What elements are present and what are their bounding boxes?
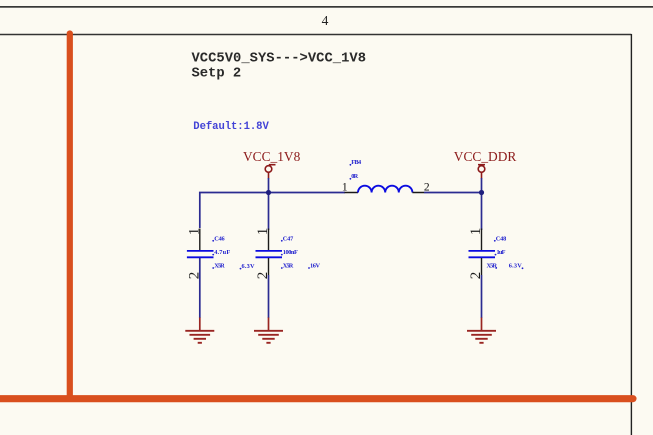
svg-text:0R: 0R <box>351 173 358 180</box>
svg-text:FB4: FB4 <box>351 159 362 166</box>
svg-text:16V: 16V <box>310 262 320 269</box>
svg-text:VCC_DDR: VCC_DDR <box>454 149 517 164</box>
C47 pin 2 black segment <box>268 258 270 275</box>
ferrite bead FB4 <box>342 159 430 194</box>
svg-text:1uF: 1uF <box>497 249 506 256</box>
power port VCC_1V8 circle <box>265 165 275 179</box>
wire: bus right segment <box>424 192 482 194</box>
orange vertical bus bar <box>67 30 73 398</box>
svg-text:4.7uF: 4.7uF <box>214 249 230 256</box>
FB4 pin 1 stub <box>345 192 359 194</box>
svg-text:C48: C48 <box>496 235 507 242</box>
wire: VCC_1V8 drop <box>268 178 270 230</box>
svg-text:6.3V: 6.3V <box>509 262 522 269</box>
C48 plates <box>469 250 496 252</box>
capacitor C46 <box>187 228 255 318</box>
C47 pin 1 black segment <box>268 229 270 251</box>
power port VCC_DDR circle <box>478 165 485 179</box>
svg-text:1: 1 <box>468 228 484 236</box>
ground under C47 <box>254 318 283 343</box>
junction node at VCC_DDR <box>479 190 484 195</box>
inner border top line <box>0 34 631 36</box>
svg-text:Setp 2: Setp 2 <box>192 67 242 82</box>
svg-text:4: 4 <box>322 13 329 28</box>
C48 pin 2 black segment <box>481 258 483 275</box>
svg-text:2: 2 <box>187 272 203 280</box>
C47 wire below <box>268 275 270 318</box>
ground under C46 <box>185 318 214 343</box>
junction node at VCC_1V8 <box>266 190 271 195</box>
svg-text:1: 1 <box>342 182 348 194</box>
C46 pin 1 black segment <box>199 229 201 251</box>
svg-text:C47: C47 <box>283 235 294 242</box>
capacitor C47 <box>255 228 320 318</box>
FB4 coil <box>358 186 412 193</box>
svg-text:C46: C46 <box>214 235 225 242</box>
svg-text:2: 2 <box>424 182 430 194</box>
svg-text:1: 1 <box>187 228 203 236</box>
C48 wire below <box>481 275 483 318</box>
svg-text:2: 2 <box>255 272 271 280</box>
ground under C48 <box>467 318 496 343</box>
svg-text:VCC_1V8: VCC_1V8 <box>243 149 301 164</box>
orange horizontal bus bar <box>0 395 637 402</box>
C46 wire below <box>199 258 201 318</box>
inner border right line <box>630 34 632 435</box>
wire: main bus left segment <box>200 193 345 229</box>
outer border top line <box>0 6 653 8</box>
capacitor C48 <box>468 228 523 318</box>
svg-text:X5R: X5R <box>214 262 225 269</box>
C46 plates <box>187 250 214 252</box>
svg-text:VCC5V0_SYS--->VCC_1V8: VCC5V0_SYS--->VCC_1V8 <box>192 51 367 66</box>
svg-text:1: 1 <box>255 228 271 236</box>
FB4 pin 2 stub <box>412 192 424 194</box>
svg-text:Default:1.8V: Default:1.8V <box>193 121 269 133</box>
svg-text:X5R: X5R <box>283 262 294 269</box>
svg-text:2: 2 <box>468 272 484 280</box>
svg-text:6.3V: 6.3V <box>242 263 255 270</box>
C48 pin 1 black segment <box>481 229 483 251</box>
wire: VCC_DDR drop <box>481 178 483 230</box>
svg-text:100nF: 100nF <box>283 249 298 256</box>
C47 plates <box>256 250 283 252</box>
